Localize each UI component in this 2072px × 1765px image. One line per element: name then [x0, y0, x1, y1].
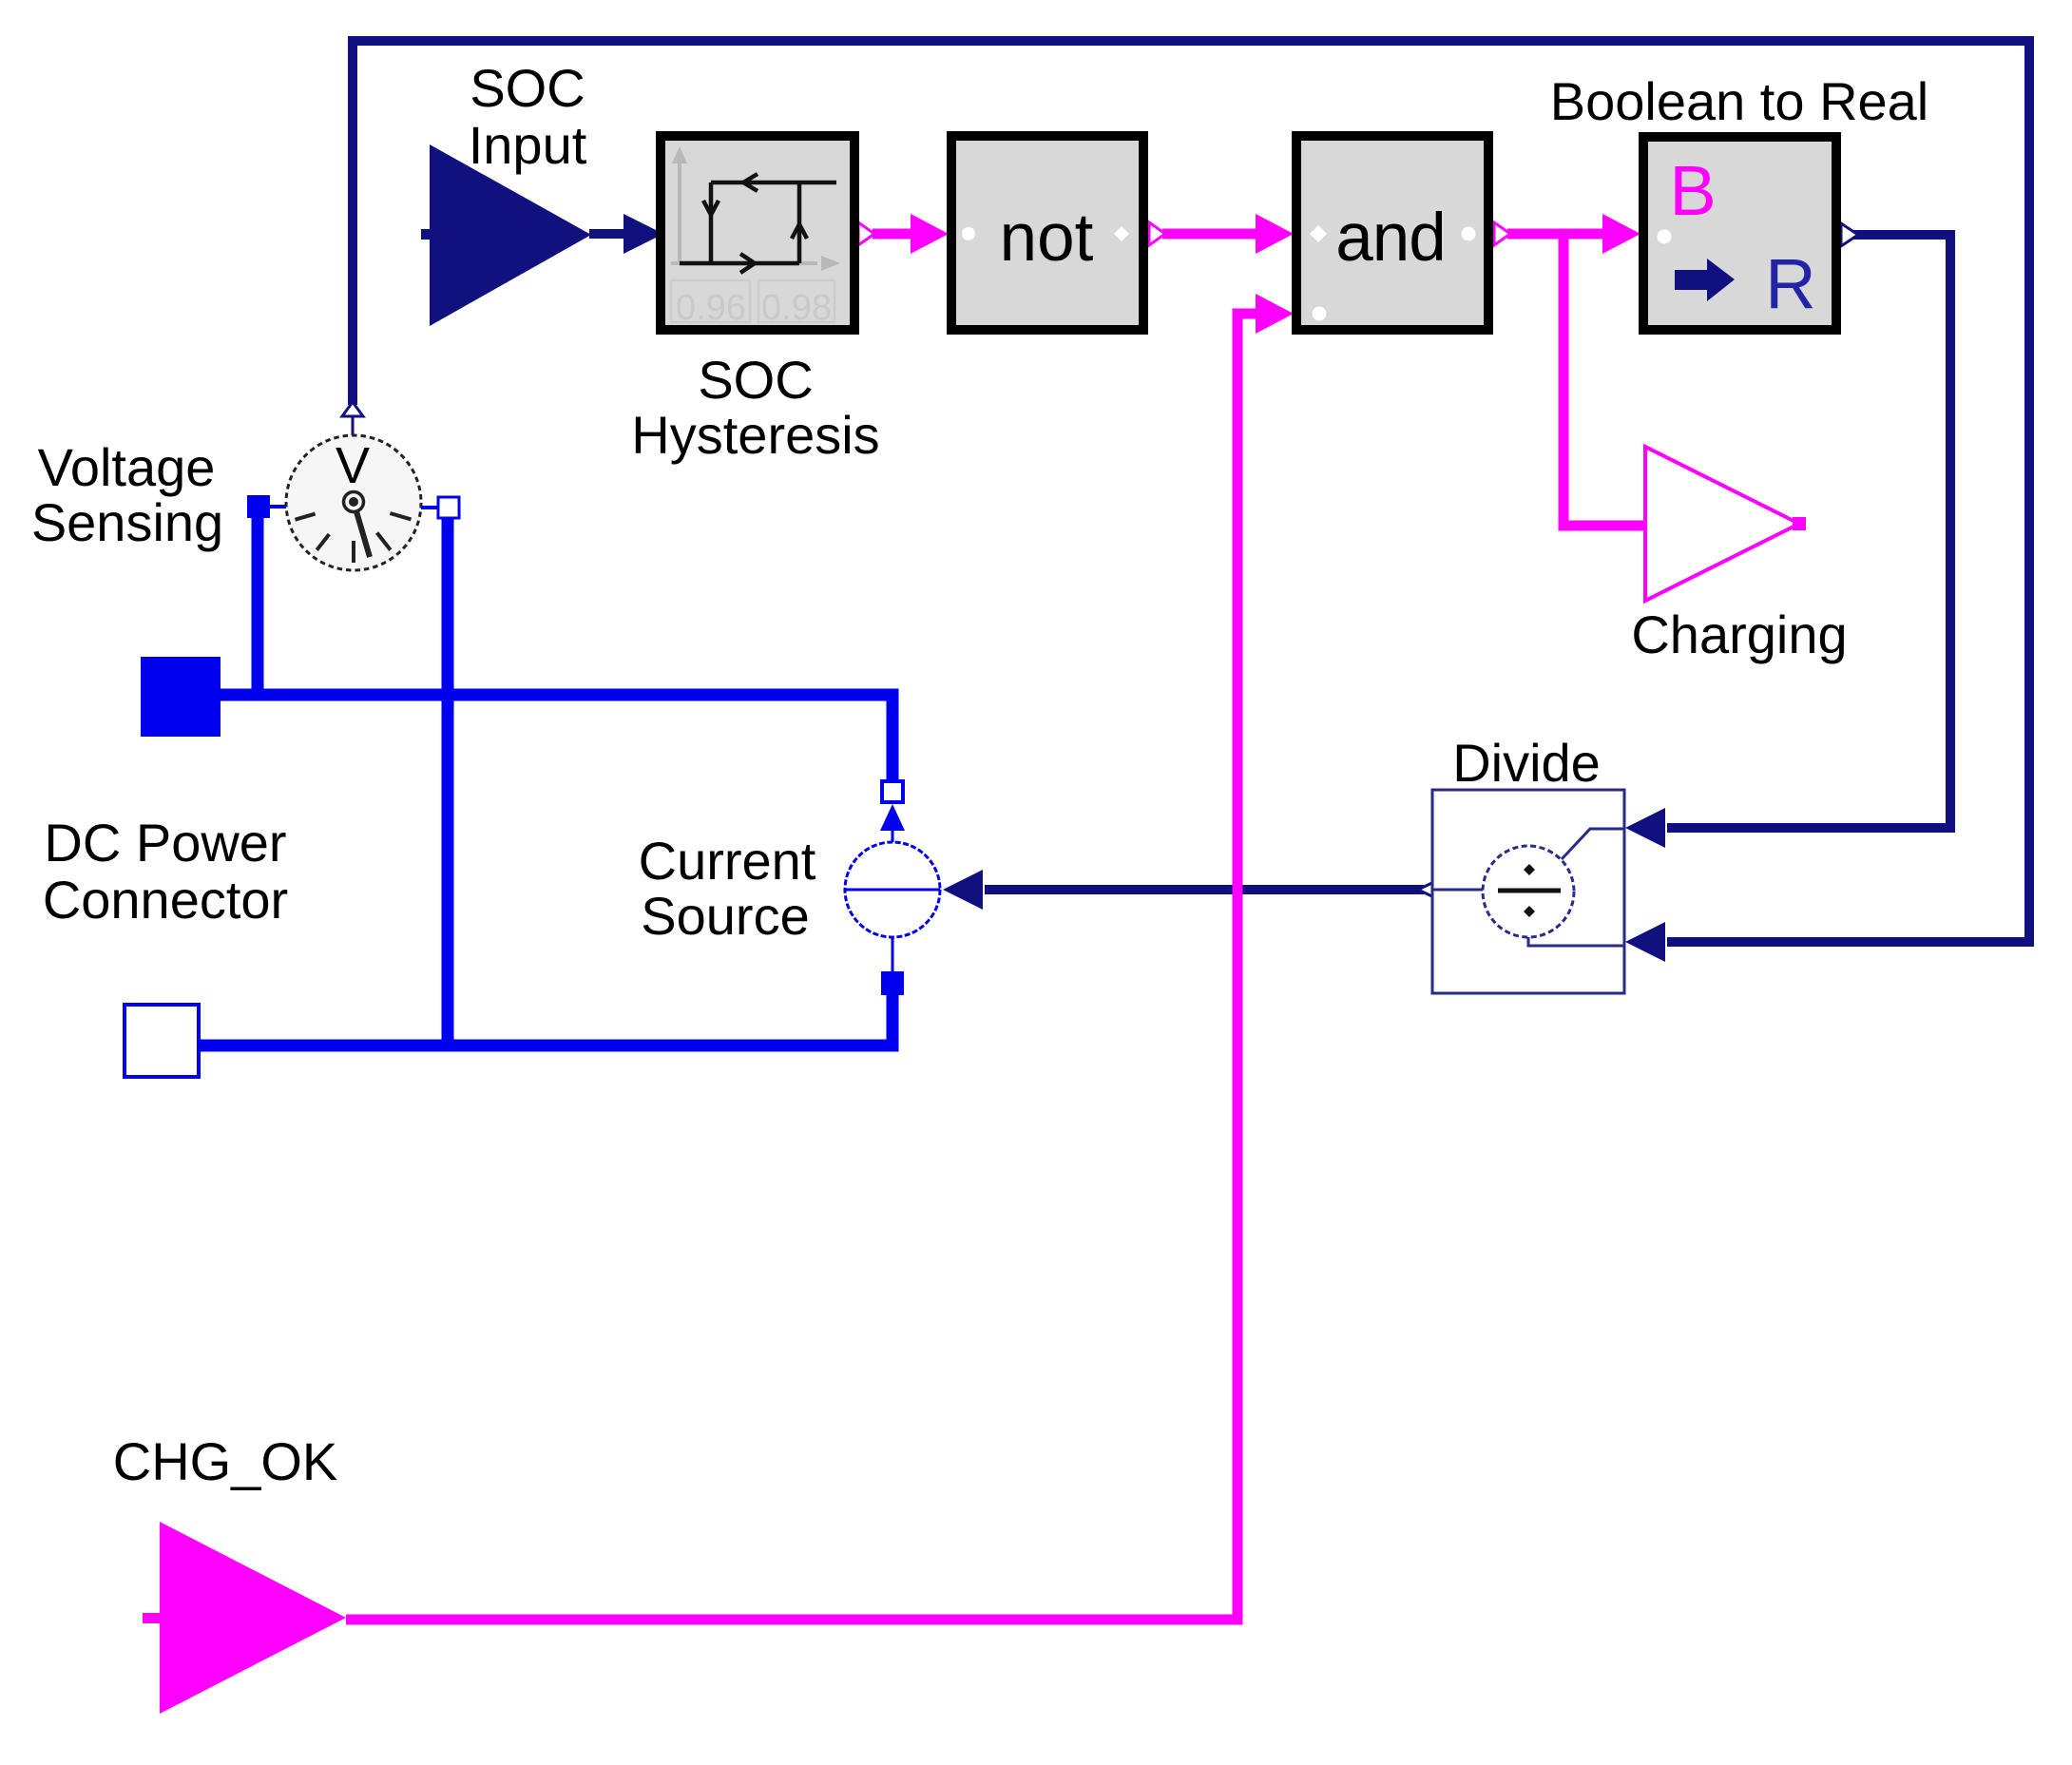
stub square at Charging triangle tip	[1793, 517, 1806, 530]
wire: blue electrical top bus from DC connector pin to Current Source top port	[219, 695, 892, 783]
hysteresis chevron down on left segment	[703, 201, 719, 215]
block not body	[951, 136, 1143, 330]
current source top lead	[892, 831, 894, 842]
open source-end arrow at not output	[1149, 222, 1165, 245]
division sign upper dot	[1524, 864, 1535, 875]
svg-text:Hysteresis: Hysteresis	[631, 405, 879, 465]
svg-text:Current: Current	[639, 831, 816, 891]
current source diameter line	[845, 889, 940, 892]
arrowhead into and input 2	[1256, 294, 1294, 334]
port V-meter left pin (filled square)	[247, 495, 270, 518]
port not output	[1114, 226, 1129, 241]
svg-text:not: not	[1000, 201, 1094, 276]
open source-end arrow at Divide output	[1418, 878, 1442, 901]
port Boolean to Real input	[1658, 230, 1672, 244]
arrowhead into not input	[911, 214, 949, 254]
svg-text:Input: Input	[469, 115, 587, 175]
voltmeter tick 4	[377, 533, 391, 550]
svg-text:Divide: Divide	[1452, 733, 1601, 793]
voltmeter tick 1	[296, 514, 316, 520]
division sign lower dot	[1524, 906, 1535, 917]
port and input 1	[1310, 225, 1327, 242]
output connector Charging (open magenta triangle)	[1645, 447, 1799, 601]
hysteresis grey x-axis arrowhead	[821, 256, 840, 271]
svg-text:V: V	[336, 437, 370, 494]
Divide operator circle	[1483, 846, 1574, 937]
block and body	[1296, 136, 1488, 330]
hysteresis grey y-axis	[678, 160, 681, 264]
value box 0.98	[758, 280, 835, 322]
input connector SOC Input (filled navy triangle)	[430, 144, 591, 326]
svg-text:DC Power: DC Power	[44, 813, 286, 873]
port current source positive pin (open square)	[882, 781, 903, 802]
DC power connector negative pin (open square)	[125, 1005, 199, 1077]
arrowhead into Boolean-to-Real input	[1602, 214, 1640, 254]
arrowhead into Divide input 2	[1625, 922, 1665, 962]
port current source negative pin (filled square)	[881, 971, 904, 995]
open source-end arrow at Boolean-to-Real output	[1841, 223, 1858, 246]
svg-text:Source: Source	[641, 886, 809, 946]
current source direction arrow	[880, 804, 905, 831]
wire: magenta branch from and-output junction down to Charging triangle	[1564, 229, 1645, 526]
voltmeter tick 3	[352, 541, 355, 563]
hysteresis chevron left on top segment	[743, 174, 758, 191]
svg-text:B: B	[1669, 151, 1716, 230]
svg-text:Sensing: Sensing	[31, 492, 223, 552]
wire: magenta Boolean signal from SOC Hysteresis output to not	[873, 229, 913, 240]
svg-text:0.98: 0.98	[761, 288, 832, 328]
lead from V-meter open arrow to dial	[352, 416, 355, 435]
conversion arrow head	[1707, 259, 1735, 301]
open source-end arrow at SOC Hysteresis output	[858, 222, 874, 245]
Divide internal lead from input 2	[1528, 937, 1624, 946]
svg-text:0.96: 0.96	[676, 288, 746, 328]
lead V-meter right pin to dial	[421, 506, 438, 509]
block Boolean to Real body	[1643, 137, 1836, 330]
port and input 2	[1313, 307, 1327, 321]
port V-meter right pin (open square)	[438, 497, 459, 518]
value box 0.96	[671, 280, 750, 322]
svg-text:Boolean to Real: Boolean to Real	[1550, 71, 1929, 131]
svg-text:SOC: SOC	[698, 350, 813, 410]
hysteresis grey y-axis arrowhead	[672, 146, 687, 163]
voltmeter tick 2	[317, 534, 329, 550]
wire: navy Real signal from Boolean-to-Real output to Divide input 1	[1667, 235, 1950, 828]
input connector CHG_OK (filled magenta triangle)	[160, 1522, 346, 1714]
wire: blue electrical net, V-meter left port down to top bus (junction)	[252, 513, 264, 695]
stub on SOC Input left edge	[421, 229, 431, 240]
open source-end arrow at V-meter output	[342, 402, 363, 416]
hysteresis curve	[680, 182, 836, 263]
DC power connector positive pin (filled square)	[141, 657, 221, 737]
block SOC Hysteresis body	[661, 136, 854, 330]
svg-text:Charging: Charging	[1631, 604, 1847, 664]
port not input	[962, 227, 975, 240]
wire: magenta Boolean signal from not output to and input 1	[1162, 229, 1257, 240]
svg-text:Voltage: Voltage	[38, 437, 216, 497]
svg-text:R: R	[1765, 244, 1815, 323]
svg-text:SOC: SOC	[470, 58, 585, 118]
arrowhead into Divide input 1	[1625, 808, 1665, 848]
wire: navy Real signal from Divide output to Current Source control input	[985, 885, 1424, 894]
open source-end arrow at and output	[1494, 222, 1510, 245]
conversion arrow shaft	[1675, 270, 1707, 290]
stub on CHG_OK left edge	[143, 1613, 161, 1623]
voltmeter pivot ring	[344, 492, 364, 512]
wire: navy Real signal from V-meter output looping over the top to Divide input 2	[353, 41, 2029, 942]
voltmeter dial circle	[286, 435, 421, 570]
hysteresis grey x-axis	[671, 261, 817, 265]
hysteresis chevron up on right segment	[792, 224, 807, 239]
voltmeter tick 5	[390, 513, 411, 519]
wire: navy Real signal from SOC Input triangle to SOC Hysteresis	[589, 229, 627, 239]
arrowhead into Current Source control input	[943, 870, 983, 910]
voltmeter pivot dot	[349, 497, 358, 507]
arrowhead into SOC Hysteresis input	[624, 214, 663, 254]
wire: blue electrical bottom bus from open connector pin to Current Source bottom port	[198, 990, 892, 1046]
current source I1 circle	[845, 842, 940, 937]
wire: blue electrical net from V-meter right port down across top bus to bottom bus	[442, 513, 454, 1046]
current source bottom lead	[892, 937, 894, 971]
Divide internal lead to output	[1432, 889, 1483, 892]
arrowhead into and input 1	[1256, 214, 1294, 254]
wire: magenta Boolean signal from and output to Boolean-to-Real input	[1507, 229, 1604, 240]
svg-text:CHG_OK: CHG_OK	[113, 1431, 338, 1491]
hysteresis chevron right on bottom segment	[740, 254, 755, 273]
voltmeter needle	[354, 502, 370, 557]
wire: magenta Boolean signal CHG_OK to and input 2	[346, 314, 1257, 1620]
port and output	[1462, 227, 1476, 241]
svg-text:and: and	[1335, 201, 1445, 276]
division sign bar	[1498, 889, 1561, 893]
block Divide body	[1432, 790, 1624, 993]
Divide internal lead from input 1	[1562, 829, 1624, 859]
svg-text:Connector: Connector	[43, 870, 288, 930]
lead V-meter left pin to dial	[270, 505, 286, 508]
